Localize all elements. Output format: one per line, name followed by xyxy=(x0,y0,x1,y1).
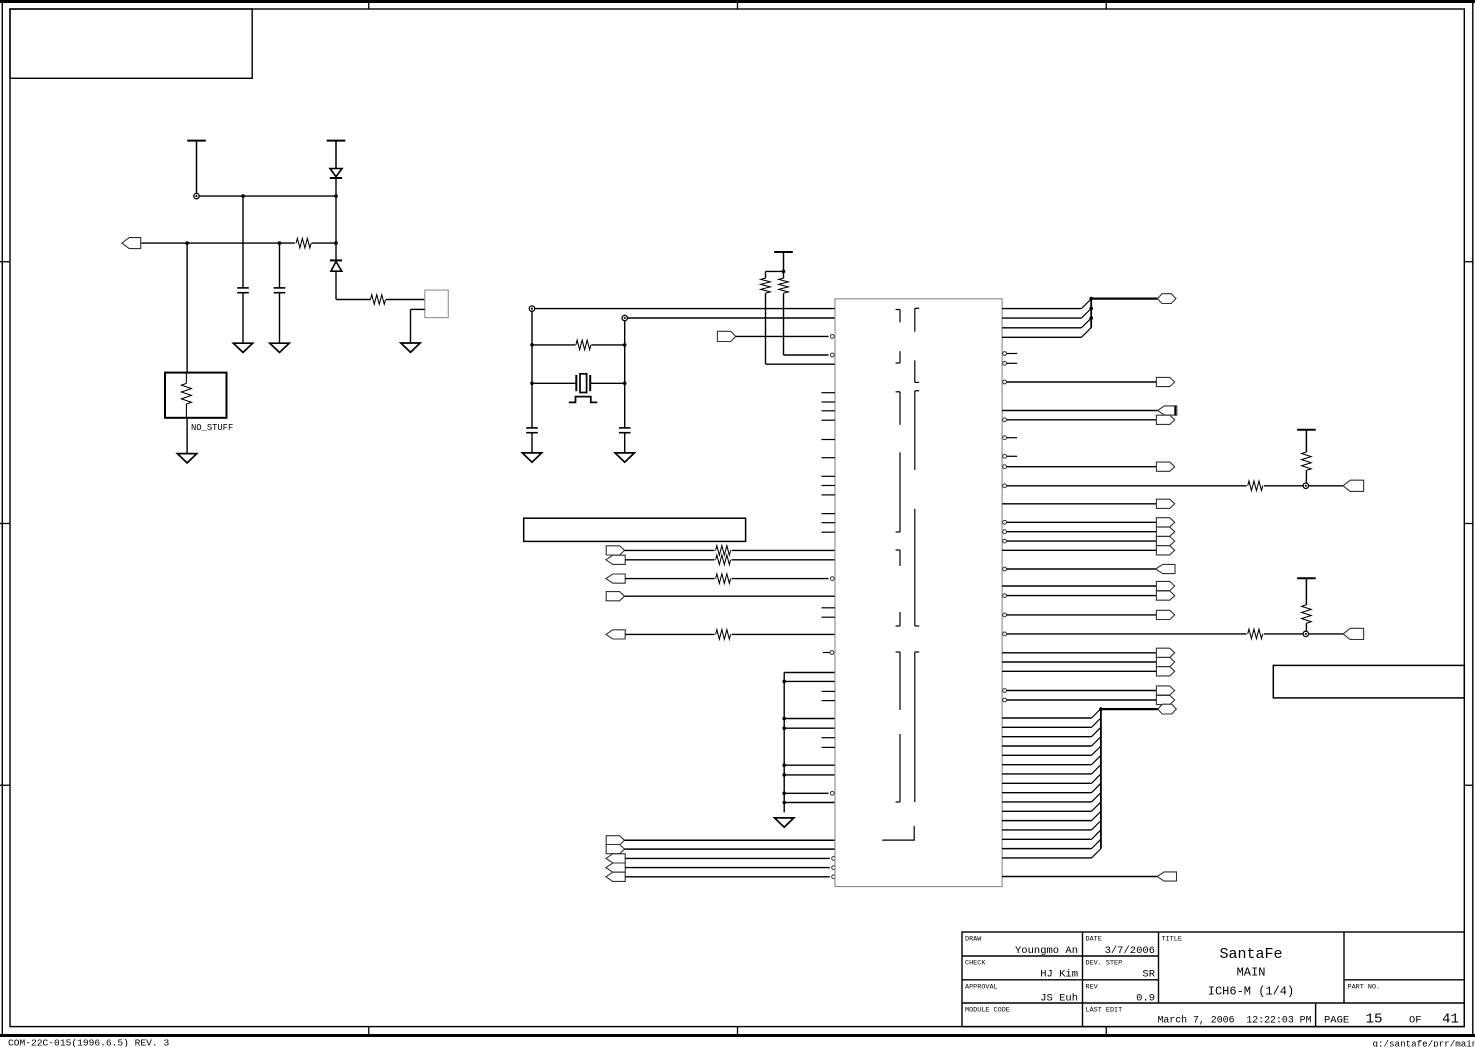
pin bubble xyxy=(830,353,834,357)
junction xyxy=(1099,707,1103,711)
connector node xyxy=(194,193,199,198)
power symbol P3 xyxy=(774,251,793,253)
pin stub xyxy=(822,410,836,412)
wire xyxy=(1002,717,1091,719)
wire xyxy=(1007,419,1157,421)
ground xyxy=(615,453,634,462)
wire xyxy=(625,549,715,551)
input port xyxy=(1158,406,1177,415)
pin bubble xyxy=(830,577,834,581)
output port xyxy=(1156,377,1174,386)
wire xyxy=(1002,764,1091,766)
wire xyxy=(784,764,835,766)
pin stub xyxy=(822,746,836,748)
wire xyxy=(1002,876,1159,878)
wire xyxy=(784,672,835,674)
capacitor C4 xyxy=(619,427,631,429)
output port xyxy=(606,845,624,854)
svg-text:15: 15 xyxy=(1365,1012,1382,1028)
bus port xyxy=(1158,704,1177,714)
connector node xyxy=(1303,631,1308,636)
resistor R9 xyxy=(716,574,731,584)
resistor R14 xyxy=(1302,605,1312,623)
wire xyxy=(1305,470,1307,483)
resistor R8 xyxy=(716,555,731,565)
pin bubble xyxy=(1003,465,1007,469)
junction xyxy=(334,241,338,245)
pin bubble xyxy=(1003,530,1007,534)
wire xyxy=(1264,633,1303,635)
pin bubble xyxy=(1003,520,1007,524)
output port xyxy=(1156,546,1174,555)
junction xyxy=(782,726,786,730)
pin stub xyxy=(822,700,836,702)
pin stub xyxy=(822,531,836,533)
svg-text:3/7/2006: 3/7/2006 xyxy=(1105,945,1155,957)
wire xyxy=(386,299,425,301)
svg-text:COM-22C-015(1996.6.5) REV. 3: COM-22C-015(1996.6.5) REV. 3 xyxy=(8,1038,169,1047)
wire xyxy=(1002,410,1157,412)
input port xyxy=(1157,872,1176,881)
wire xyxy=(1007,540,1157,542)
output port xyxy=(606,836,624,845)
output port xyxy=(1156,657,1174,666)
resistor R6 xyxy=(779,278,789,293)
junction xyxy=(278,241,282,245)
wire xyxy=(1002,848,1091,850)
connector node xyxy=(622,315,627,320)
output port xyxy=(1156,527,1174,536)
svg-text:SantaFe: SantaFe xyxy=(1219,946,1282,963)
wire xyxy=(1007,614,1157,616)
pin bubble xyxy=(830,335,834,339)
pin bubble xyxy=(832,875,836,879)
pin stub xyxy=(1007,353,1018,355)
power symbol P4 xyxy=(1297,429,1316,431)
wire xyxy=(766,270,784,272)
wire xyxy=(531,311,533,428)
pin stub xyxy=(822,607,836,609)
input port xyxy=(122,238,141,249)
wire xyxy=(199,195,336,197)
svg-text:MODULE CODE: MODULE CODE xyxy=(965,1007,1010,1015)
pin bubble xyxy=(1003,689,1007,693)
label box xyxy=(524,518,746,541)
wire xyxy=(625,848,836,850)
capacitor C2 xyxy=(279,243,281,287)
bus wire xyxy=(1091,298,1157,300)
pin bubble xyxy=(1003,418,1007,422)
wire xyxy=(1007,595,1157,597)
input port xyxy=(1343,628,1364,639)
pin bubble xyxy=(1003,361,1007,365)
wire xyxy=(625,857,830,859)
svg-text:JS Euh: JS Euh xyxy=(1040,992,1078,1004)
output port xyxy=(1156,610,1174,619)
bus wire xyxy=(1101,708,1158,710)
junction xyxy=(782,763,786,767)
IC U1 ICH6-M xyxy=(835,299,1002,887)
pin bubble xyxy=(1003,484,1007,488)
resistor R11 xyxy=(1248,481,1263,491)
pin bubble xyxy=(1003,632,1007,636)
wire xyxy=(1007,690,1157,692)
wire xyxy=(591,344,624,346)
resistor R10 xyxy=(716,630,731,640)
wire xyxy=(1002,801,1091,803)
svg-text:41: 41 xyxy=(1442,1012,1459,1028)
bus port xyxy=(1157,294,1176,304)
power symbol P2 xyxy=(327,140,346,142)
wire xyxy=(1002,327,1081,329)
pin bubble xyxy=(1003,594,1007,598)
svg-text:DRAW: DRAW xyxy=(965,936,982,944)
pin bubble xyxy=(1003,613,1007,617)
svg-text:TITLE: TITLE xyxy=(1162,936,1182,944)
output port xyxy=(1156,686,1174,695)
wire xyxy=(1007,699,1157,701)
junction xyxy=(185,241,189,245)
pin stub xyxy=(822,439,836,441)
capacitor C1 xyxy=(242,196,244,287)
output port xyxy=(1156,581,1174,590)
pin stub xyxy=(1007,437,1018,439)
pin stub xyxy=(822,494,836,496)
resistor R12 xyxy=(1302,452,1312,470)
wire xyxy=(784,774,835,776)
resistor R5 xyxy=(761,278,771,293)
wire xyxy=(535,308,835,310)
junction xyxy=(1089,316,1093,320)
capacitor C3 xyxy=(526,427,538,429)
wire xyxy=(783,271,785,278)
wire xyxy=(1007,531,1157,533)
wire xyxy=(141,242,295,244)
bus wire xyxy=(1100,709,1102,849)
pin bubble xyxy=(832,857,836,861)
svg-text:NO_STUFF: NO_STUFF xyxy=(191,423,233,433)
wire xyxy=(1007,568,1158,570)
ground xyxy=(522,453,541,462)
wire xyxy=(1007,485,1247,487)
wire xyxy=(732,633,835,635)
wire xyxy=(1264,485,1303,487)
wire xyxy=(625,633,714,635)
ground xyxy=(177,454,196,463)
power symbol P5 xyxy=(1297,577,1316,579)
wire xyxy=(1007,521,1157,523)
wire xyxy=(1002,745,1091,747)
wire xyxy=(628,317,835,319)
wire xyxy=(1002,838,1091,840)
junction xyxy=(530,382,534,386)
junction xyxy=(782,270,786,274)
wire xyxy=(1002,820,1091,822)
wire xyxy=(783,673,785,813)
junction xyxy=(1089,307,1093,311)
wire xyxy=(186,418,188,454)
ground xyxy=(233,343,252,352)
wire xyxy=(1002,792,1091,794)
junction xyxy=(782,680,786,684)
svg-text:HJ Kim: HJ Kim xyxy=(1040,969,1078,981)
wire xyxy=(1002,726,1091,728)
svg-text:PAGE: PAGE xyxy=(1324,1015,1349,1027)
wire xyxy=(1002,829,1091,831)
wire xyxy=(1007,466,1157,468)
wire xyxy=(625,876,830,878)
junction xyxy=(782,801,786,805)
pin stub xyxy=(1007,362,1018,364)
wire xyxy=(784,680,835,682)
wire xyxy=(1002,670,1156,672)
junction xyxy=(1089,297,1093,301)
wire xyxy=(1007,633,1247,635)
input port xyxy=(717,331,735,341)
pin stub xyxy=(822,737,836,739)
wire xyxy=(532,344,575,346)
output port xyxy=(1156,667,1174,676)
input port xyxy=(1156,564,1175,573)
svg-text:LAST EDIT: LAST EDIT xyxy=(1086,1007,1123,1015)
wire xyxy=(1309,485,1344,487)
ground xyxy=(270,343,289,352)
wire xyxy=(1002,549,1156,551)
svg-text:March 7, 2006 12:22:03 PM: March 7, 2006 12:22:03 PM xyxy=(1157,1015,1311,1026)
output port xyxy=(1156,648,1174,657)
svg-text:SR: SR xyxy=(1142,969,1155,981)
svg-text:REV: REV xyxy=(1086,983,1099,991)
resistor R13 xyxy=(1248,629,1263,639)
bus wire xyxy=(1090,299,1092,328)
diode D1 xyxy=(330,169,342,177)
power symbol P1 xyxy=(187,140,206,142)
junction xyxy=(623,382,627,386)
wire xyxy=(1002,754,1091,756)
wire xyxy=(624,321,626,428)
wire xyxy=(625,839,836,841)
wire xyxy=(336,299,371,301)
input port xyxy=(606,574,625,583)
output port xyxy=(606,546,624,555)
resistor R1 xyxy=(296,238,311,248)
junction xyxy=(782,773,786,777)
label box xyxy=(1273,665,1464,698)
wire xyxy=(1007,381,1157,383)
ground xyxy=(401,343,420,352)
pad component FB1 xyxy=(425,290,449,318)
pin bubble xyxy=(1003,567,1007,571)
pin stub xyxy=(822,457,836,459)
junction xyxy=(623,343,627,347)
svg-text:Youngmo An: Youngmo An xyxy=(1015,945,1078,957)
input port xyxy=(606,555,625,564)
crystal Y1 xyxy=(532,382,576,384)
wire xyxy=(1002,810,1091,812)
wire xyxy=(765,293,767,364)
junction xyxy=(241,194,245,198)
wire xyxy=(783,293,785,355)
pin stub xyxy=(822,475,836,477)
input port xyxy=(606,872,625,881)
output port xyxy=(1156,537,1174,546)
pin bubble xyxy=(832,866,836,870)
wire xyxy=(312,242,336,244)
svg-text:OF: OF xyxy=(1409,1015,1422,1027)
wire xyxy=(784,727,835,729)
pin stub xyxy=(1007,455,1018,457)
connector node xyxy=(1303,483,1308,488)
wire xyxy=(732,549,835,551)
title block xyxy=(962,932,1464,1027)
wire xyxy=(625,867,830,869)
svg-text:MAIN: MAIN xyxy=(1237,966,1266,980)
pin stub xyxy=(822,522,836,524)
input port xyxy=(1343,480,1364,491)
pin stub xyxy=(822,392,836,394)
svg-text:g:/santafe/prr/main: g:/santafe/prr/main xyxy=(1373,1038,1475,1047)
output port xyxy=(1156,462,1174,471)
pin bubble xyxy=(1003,539,1007,543)
wire xyxy=(411,308,425,310)
output port xyxy=(606,592,624,601)
wire xyxy=(1309,633,1344,635)
wire xyxy=(1002,736,1091,738)
wire xyxy=(1002,317,1081,319)
wire xyxy=(625,559,714,561)
wire xyxy=(732,559,835,561)
svg-text:DATE: DATE xyxy=(1086,936,1102,944)
output port xyxy=(1156,695,1174,704)
revision history box xyxy=(10,9,252,78)
pin stub xyxy=(822,690,836,692)
resistor R3 NO_STUFF xyxy=(165,373,227,418)
wire xyxy=(625,595,836,597)
output port xyxy=(1156,591,1174,600)
input port xyxy=(606,863,625,872)
output port xyxy=(1156,499,1174,508)
resistor R7 xyxy=(716,546,731,556)
wire xyxy=(732,578,829,580)
pin stub xyxy=(822,401,836,403)
pin bubble xyxy=(1003,352,1007,356)
pin bubble xyxy=(1003,454,1007,458)
wire xyxy=(1002,773,1091,775)
wire xyxy=(784,718,835,720)
svg-text:PART NO.: PART NO. xyxy=(1348,983,1381,991)
input port xyxy=(606,630,625,639)
resistor R2 xyxy=(371,295,386,305)
wire xyxy=(784,802,835,804)
output port xyxy=(1156,518,1174,527)
resistor R4 xyxy=(576,340,591,350)
input port xyxy=(606,854,625,863)
svg-text:APPROVAL: APPROVAL xyxy=(965,983,998,991)
junction xyxy=(782,717,786,721)
pin stub xyxy=(822,485,836,487)
pin bubble xyxy=(1003,380,1007,384)
pin bubble xyxy=(1003,436,1007,440)
wire xyxy=(186,243,188,373)
pin bubble xyxy=(830,791,834,795)
connector node xyxy=(529,306,534,311)
wire xyxy=(736,335,829,337)
wire xyxy=(1002,336,1081,338)
svg-text:DEV. STEP: DEV. STEP xyxy=(1086,960,1123,968)
pin bubble xyxy=(830,651,834,655)
ground xyxy=(775,818,794,827)
pin stub xyxy=(823,652,830,654)
diode D2 xyxy=(335,243,337,260)
wire xyxy=(335,196,337,243)
pin stub xyxy=(822,616,836,618)
wire xyxy=(1002,782,1091,784)
output port xyxy=(1156,415,1174,424)
wire xyxy=(1002,661,1156,663)
wire xyxy=(1002,308,1081,310)
svg-text:0.9: 0.9 xyxy=(1136,992,1155,1004)
wire xyxy=(1305,623,1307,631)
wire xyxy=(1002,585,1156,587)
pin stub xyxy=(822,513,836,515)
wire xyxy=(1002,857,1091,859)
junction xyxy=(782,792,786,796)
wire xyxy=(1002,652,1156,654)
junction xyxy=(334,194,338,198)
pin bubble xyxy=(1003,698,1007,702)
wire xyxy=(625,578,714,580)
junction xyxy=(530,343,534,347)
pin stub xyxy=(822,419,836,421)
svg-text:CHECK: CHECK xyxy=(965,960,986,968)
svg-text:ICH6-M (1/4): ICH6-M (1/4) xyxy=(1208,985,1294,999)
wire xyxy=(1002,503,1156,505)
wire xyxy=(784,792,828,794)
